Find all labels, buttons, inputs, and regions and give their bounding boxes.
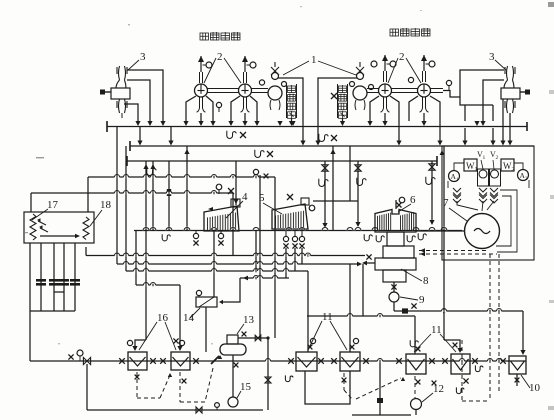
vent circle drain 2L [216,102,221,107]
IP turbine inlet header [313,200,358,202]
vent circle at valve 2a [203,64,207,66]
shaft line through turbines [134,230,462,232]
ammeter A1 [449,171,460,182]
steam inlet to heater E [307,271,309,352]
extraction header h1 y=255.5 [86,255,365,257]
valve mark under hotwell [393,282,395,292]
wire: vertical x=214 to drain cooler 14 [213,230,215,297]
svg-text:2: 2 [496,155,499,161]
wire: valve2c drains [370,96,379,121]
vent circle at IP inlet [309,205,315,211]
wire: line B drop into box [30,193,32,212]
vent circle on pipe 2R [408,77,413,82]
svg-text:14: 14 [183,312,195,324]
feed pump 15 [228,397,238,407]
wire: vertical x=233 below shaft [232,230,234,256]
deaerator head [227,335,238,344]
node: main steam bus 1 [107,126,527,128]
svg-text:15: 15 [240,381,252,393]
bottom feed line [87,409,263,411]
extraction header h5 y=285 [136,284,180,286]
control valve 3 right: bulb and body [504,80,514,88]
wattmeter W1 [464,159,477,171]
slip ring chevrons [453,188,461,197]
shaft LP to generator [416,230,465,232]
wire: valve 1R top to bus2 [318,78,357,141]
control valve 3 right: bottom fins [505,99,515,113]
stop valve 1 left (from boiler) [268,86,282,100]
dashed drains below HP heaters [136,372,138,398]
svg-text:2: 2 [399,51,405,63]
svg-text:3: 3 [140,51,146,63]
extraction header h4 y=278 with arrow to drain cooler [240,277,289,279]
svg-text:16: 16 [157,312,169,324]
HP turbine inlet nozzle box [231,199,240,207]
wire: valve2a drains to bus1 [186,96,196,121]
pipe: boiler steam downcomer 1R with text 由锅炉来 [337,84,339,118]
pipe: boiler steam downcomer 1L with text 由锅炉来 [286,84,288,118]
LP heater D [406,354,426,374]
condenser neck boxes [387,232,404,246]
LP heater C [340,352,360,371]
deaerator overflow with valve [267,338,269,410]
loop seal below heater E [285,375,293,381]
wire: valve 1L top to bus2 [278,78,303,141]
wire: gland vertical x=146 with seal to heater A [145,161,147,230]
up arrow on frame left edge [440,150,445,155]
control valve 3 left: hand lever [103,91,111,93]
HP turbine cylinder 4 [204,206,239,231]
ejector box 17/18 [24,212,94,243]
meter panel frame [442,146,534,260]
steam inlet to heater D [414,316,416,354]
drain pump 12 [411,399,422,410]
valve group 2 left: stop valve 2b [239,84,252,97]
wire inside box with arrow into 18 [40,235,76,237]
svg-text:7: 7 [443,197,449,209]
svg-text:2: 2 [217,51,223,63]
valve mark at 1R [331,93,337,99]
vent circle at valve 1L [282,82,287,87]
wire: drain pot continuations [285,248,287,278]
valve group 2 right: stop valve 2d [418,84,431,97]
resistor-like ejector 17 zigzag [30,214,36,240]
valve group 2 right: stop valve 2c [379,84,392,97]
svg-text:18: 18 [100,199,112,211]
IP turbine cylinder 5 [272,204,308,229]
control valve 3 left: bottom fins [117,99,127,113]
drain from heater C dashed to heater D [343,373,345,390]
wire: up arrows at bus 2/3 [143,164,148,169]
steam inlet to heater F [444,340,460,349]
wattmeter W2 [501,159,514,171]
gland steam line A y=177 [88,176,275,178]
dashed vertical x=499 [498,254,500,393]
gland steam line B y=193 [31,192,233,194]
condenser hotwell 8 [383,270,406,282]
ejector 18 zigzag [83,217,89,240]
svg-text:3: 3 [489,51,495,63]
LP heater F [451,354,470,374]
vent circles near 1R [350,82,355,87]
line crossing hops [115,176,120,178]
HP heater 16b [171,352,190,370]
vent circles above HP heaters [127,340,132,345]
generator 7 [465,214,500,249]
wires from slip rings to generator [457,201,478,210]
svg-text:1: 1 [311,54,317,66]
deaerator downcomer to feed pump [232,355,234,397]
wire: short stubs bus1 to bus2 [139,127,141,141]
steam inlet to heater C [349,264,351,352]
three-way valve with vent at left feed line [83,357,90,364]
HP heater 16a [128,352,147,370]
wire: valve2b drains to bus1 [231,96,240,121]
turbine inlet verticals with bowties and loops x=325,358,432 [324,161,326,224]
vent circle at valve 2c [387,63,391,65]
LP turbine cylinder 6 double flow [375,210,416,233]
svg-text:10: 10 [529,382,541,394]
drain U below heaters E-C [305,371,350,404]
main feed water line [30,360,526,362]
loop seal and valve marks between buses [227,131,236,139]
valve marks on feed line [119,358,125,364]
pipe: valve2a-2b-1L connecting pipe [208,88,239,90]
valve group 2 left: stop valve 2a [195,84,208,97]
heater 10 [509,356,526,374]
shaft line crossing bumps [143,228,149,231]
orifice plates (thick bars) [36,279,46,282]
IP turbine inlet nozzle box [301,198,309,205]
wire: gland vertical x=153 with loop seal [152,161,154,230]
ammeter A2 [518,170,529,181]
vent circle on right pipe chain [446,80,451,85]
voltmeter V1 [479,170,487,178]
dashed vertical x=490 [489,254,491,399]
deaerator tank 13 [220,344,246,355]
ejector 17 arrows [38,221,46,225]
control valve 3 right: top fins [505,66,515,80]
drain pots below IP turbine [283,236,288,241]
drain line to pump 12 [352,414,411,416]
drain below heater G [516,374,518,386]
extraction header h3 y=271 [126,270,308,272]
deaerator inlet line [238,337,268,339]
wire: vertical x=256 [255,230,257,271]
vent circle at valve 2b [247,64,251,66]
wire: vertical x=187 [186,146,188,230]
label: 进喷嘴室 left [200,33,209,41]
feed arrow into deaerator [211,356,219,364]
dashed pair from turbine to right [419,250,488,252]
svg-text:11: 11 [322,311,333,323]
valve marks below heaters D F [432,381,437,386]
svg-text:2: 2 [512,167,515,173]
wire: vertical x=260 from gland area to deaerator [259,175,261,338]
control valve 3 right: hand lever [520,91,528,93]
wire: box outlet verticals to orifices [29,243,31,311]
vent on drain cooler 14 [196,290,201,295]
wire: cooler 14 outlet down [205,307,207,352]
node: steam bus 3 [127,160,437,162]
svg-text:9: 9 [419,294,425,306]
gland loops below shaft line [162,234,170,241]
drain from heater D to pump 12 [414,376,416,398]
wire: valve3 left bottom drop [124,104,138,121]
condensate line to heater 10 [393,302,395,311]
wire: left long vertical from bus2 [125,146,127,271]
wire: vertical x=169 with orifice [168,161,170,230]
stop valve 1 right (from boiler) [353,86,367,100]
wire: valve3 right outputs [460,70,504,97]
wire: line A drop into box [87,177,89,212]
wire: line B corner down at x=233 [232,193,234,230]
current lead loops right of generator [497,190,517,252]
condensate pump 9 [389,292,399,302]
drain cooler 14 [196,297,217,307]
label: 进喷嘴室 right [390,29,399,37]
svg-text:17: 17 [47,199,59,211]
wire: vertical x=275 from gland line A [274,177,276,338]
vent circle on pipe [259,80,264,85]
wire: vertical x=444 to LP region [443,146,445,340]
condenser left drain with valve [364,262,375,264]
LP heater E [296,352,317,371]
vent circle at valve 2d [426,63,430,65]
svg-text:13: 13 [243,314,255,326]
HP turbine exhaust arrow [208,207,213,211]
node: steam bus 2 [130,145,534,147]
condensate riser into heater 10 [522,311,524,351]
LP inlet [395,200,397,209]
wire: condenser auxiliary line [362,264,364,316]
wire: collector y=311 and drop to feed line [30,310,75,312]
wire: valve3 left outputs to bus1 [127,70,163,121]
voltmeter V2 [491,170,499,178]
wire: valve2d drains [409,96,418,121]
wire: arrows into bus 2 [137,141,142,146]
labels and small marks lower right [475,365,483,371]
svg-text:8: 8 [423,275,429,287]
bypass drop from three-way valve [86,364,88,410]
extraction header h2 y=264 [117,263,357,265]
control valve 3 left: top fins [117,66,127,80]
valve on bottom line [196,407,202,413]
drain pots below shaft [193,233,198,238]
svg-text:1: 1 [483,155,486,161]
wire: arrows into bus 1 [147,121,152,126]
wire: pipe chain right to meters drops [443,91,493,106]
wire: left long vertical from bus1 [116,127,118,265]
control valve 3 left: bulb and body [116,80,126,88]
svg-text:12: 12 [433,383,444,395]
steam inlet to heater 16b [179,285,181,347]
turbine inlet HP: valve marks and vent [235,161,237,205]
meter wiring [454,163,464,171]
wire: jog connector [54,291,64,293]
dashed drain to heater F [461,340,463,401]
pipe: 1R-2c-2d connecting pipe [367,88,379,90]
